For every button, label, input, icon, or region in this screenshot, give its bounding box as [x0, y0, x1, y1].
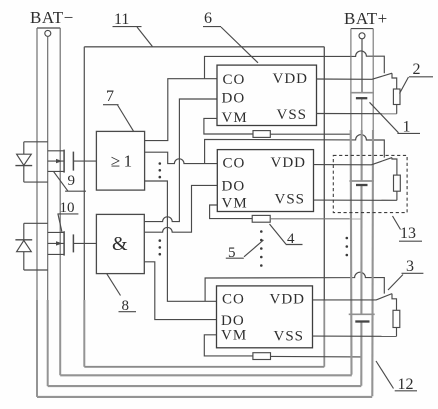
resistor R4 under IC2 — [252, 215, 270, 222]
MOSFET Q10 — [48, 231, 74, 255]
svg-text:CO: CO — [223, 156, 246, 172]
svg-text:≥ 1: ≥ 1 — [111, 152, 132, 171]
wire VDD1 with diagonal to cell1 junction — [317, 73, 393, 79]
bus bottom middle (BAT- middle to stem) — [48, 385, 362, 387]
label 8 — [107, 274, 136, 314]
wire tap cell2 (hop over stem) — [205, 135, 385, 164]
svg-text:BAT−: BAT− — [30, 8, 74, 27]
stem battery stack wire — [360, 39, 363, 386]
wire gate Q9 from OR output — [73, 160, 96, 162]
rail left (BAT+ box left edge) — [351, 29, 352, 375]
svg-text:11: 11 — [114, 11, 129, 28]
wire VDD2 with diagonal to cell2 junction — [314, 158, 393, 165]
label 12 — [376, 361, 417, 393]
battery cell 3 plates — [349, 314, 375, 321]
dots cascade below R4 — [260, 230, 263, 267]
wire BAT- left vertical — [36, 28, 38, 300]
AND gate U8 box — [96, 214, 144, 273]
svg-text:BAT+: BAT+ — [344, 9, 388, 28]
wire VM2 to left rail — [270, 218, 350, 220]
resistor R3 — [393, 310, 400, 327]
wire AND input2 from DO2 (hop over OR3 bus) — [144, 185, 217, 232]
svg-text:6: 6 — [204, 10, 212, 27]
IC U2 box — [217, 150, 313, 212]
svg-text:DO: DO — [222, 179, 246, 195]
label 2 — [400, 61, 434, 94]
svg-text:9: 9 — [68, 173, 76, 189]
wire VDD3 with diagonal to cell3 junction — [313, 294, 393, 300]
svg-text:&: & — [112, 233, 128, 255]
MOSFET Q9 — [48, 150, 74, 173]
svg-text:VSS: VSS — [274, 329, 305, 345]
svg-text:CO: CO — [223, 72, 246, 88]
wire VM3 to stem — [271, 355, 362, 358]
svg-text:VSS: VSS — [275, 192, 306, 208]
wire tap cell1 (from CO1 bus top, hop over stem) — [205, 51, 385, 78]
resistor R2b — [394, 175, 401, 191]
label 1 — [370, 102, 421, 135]
bus bottom inner (BAT- right to left rail) — [60, 374, 352, 376]
svg-text:VM: VM — [222, 110, 248, 126]
resistor R4a under IC1 — [253, 131, 270, 138]
rail right (BAT+ box right edge) — [371, 29, 374, 397]
terminal BAT+ — [351, 29, 373, 39]
svg-text:13: 13 — [400, 225, 416, 242]
svg-text:VDD: VDD — [271, 155, 307, 171]
wire BAT- middle vertical (switch path) — [47, 36, 49, 300]
resistor R2b stub top — [392, 158, 397, 176]
svg-text:VDD: VDD — [273, 71, 309, 87]
battery cell 2 plates — [349, 181, 373, 185]
IC U2 pin labels — [222, 155, 307, 212]
wire AND input3 to DO3 — [144, 262, 216, 320]
label 6 — [203, 10, 258, 63]
resistor R2 stub top — [392, 73, 397, 89]
svg-text:CO: CO — [222, 292, 245, 308]
wire OR input2 from CO2 (hop over DO1 bus) — [145, 152, 217, 163]
IC U1 pin labels — [222, 71, 309, 126]
resistor R2b stub bottom — [396, 191, 398, 200]
dots OR more-inputs — [159, 162, 162, 178]
wire BAT- right vertical — [59, 28, 61, 300]
label 4 — [270, 224, 303, 247]
diode D1 branch loop — [24, 142, 48, 182]
wire tap cell3 (hop over stem) — [205, 272, 384, 301]
wire AND input1 from DO1 (hop over OR3 bus) — [144, 99, 217, 222]
resistor R3 stub bottom — [396, 328, 398, 337]
label 3 — [388, 258, 423, 290]
svg-text:VM: VM — [221, 328, 247, 344]
wire OR input1 from CO1 — [145, 79, 217, 141]
terminal BAT- — [37, 28, 60, 36]
svg-text:VDD: VDD — [270, 292, 306, 308]
wire VSS2 — [314, 199, 397, 201]
svg-text:VM: VM — [222, 196, 248, 212]
label 9 — [53, 171, 86, 191]
svg-text:3: 3 — [406, 258, 414, 275]
battery cell 1 plates — [350, 93, 374, 99]
IC U3 pin labels — [221, 292, 305, 345]
svg-text:2: 2 — [413, 61, 421, 78]
diode D1 (pointing down) — [15, 154, 32, 165]
label 7 — [103, 88, 134, 131]
IC U3 box — [217, 286, 313, 348]
dots more-cells right side — [346, 237, 349, 257]
svg-text:DO: DO — [222, 91, 246, 107]
wire VSS3 — [313, 335, 397, 337]
label 11 — [113, 11, 153, 47]
IC U1 box — [217, 65, 317, 125]
wire VM1 to left rail — [270, 133, 350, 135]
diode D2 branch loop — [24, 223, 48, 270]
wire VM2 faint continuation to stem — [350, 218, 362, 220]
wire gate Q10 from AND output — [73, 242, 96, 244]
label 5 — [226, 240, 264, 261]
svg-text:VSS: VSS — [277, 107, 308, 123]
wire VM1 loop — [204, 118, 253, 134]
dots AND more-inputs — [159, 239, 162, 255]
label 13 — [393, 216, 423, 242]
wire VM2 loop — [210, 205, 253, 219]
dashed box 13 around cell2 unit — [333, 155, 407, 212]
wire OR input3 to CO3 — [145, 181, 217, 301]
resistor R2 stub bottom — [396, 105, 398, 114]
diode D2 (pointing up) — [15, 240, 32, 252]
bus bottom outer (BAT- left to right rail) — [37, 396, 372, 398]
label 10 — [57, 200, 78, 232]
module box 11 — [84, 47, 324, 367]
wire VSS1 — [317, 113, 397, 115]
resistor R2 — [393, 89, 400, 105]
wire VM3 loop — [204, 335, 253, 356]
OR gate U7 box — [96, 131, 144, 190]
resistor R3 stub top — [392, 294, 397, 311]
resistor R4b under IC3 — [253, 353, 271, 360]
svg-text:7: 7 — [106, 88, 114, 105]
